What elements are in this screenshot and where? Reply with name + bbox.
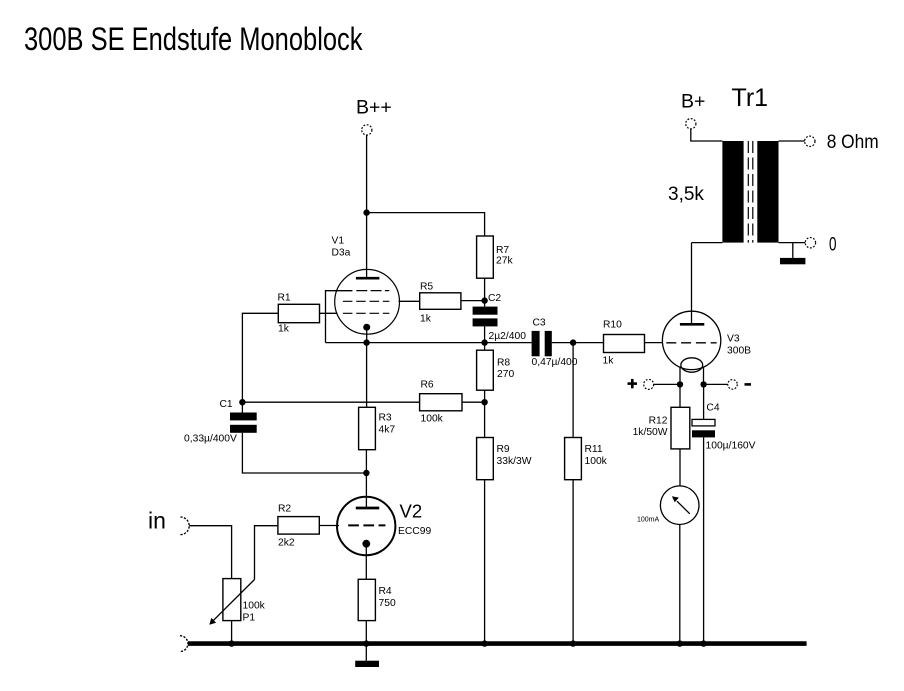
svg-text:ECC99: ECC99 — [398, 526, 431, 537]
svg-text:27k: 27k — [496, 256, 513, 267]
svg-text:100µ/160V: 100µ/160V — [706, 441, 756, 452]
node minus terminal — [728, 380, 738, 390]
node junction C2 bottom — [481, 339, 487, 345]
node junction R5/R7/C2 — [481, 297, 487, 303]
wire C2 to mid rail — [484, 326, 486, 342]
svg-text:B+: B+ — [681, 91, 705, 113]
node junction R9/rail — [481, 640, 487, 646]
svg-text:33k/3W: 33k/3W — [497, 456, 532, 467]
svg-text:300B SE Endstufe Monoblock: 300B SE Endstufe Monoblock — [24, 21, 363, 57]
V1 grid g2 — [343, 300, 389, 302]
svg-text:1k/50W: 1k/50W — [633, 427, 668, 438]
wire input to P1 top — [189, 526, 231, 579]
node junction V1 cathode — [363, 339, 369, 345]
wire V1 plate — [366, 213, 368, 277]
resistor R1 — [278, 304, 319, 322]
node junction meter/rail — [677, 640, 683, 646]
V1 grid g3 — [326, 290, 353, 292]
node junction R6/R8/R9 — [481, 399, 487, 405]
svg-text:0,33µ/400V: 0,33µ/400V — [184, 434, 237, 445]
wire R10 to V3 grid — [645, 342, 664, 344]
svg-text:750: 750 — [379, 598, 396, 609]
wire R2 to V2 grid — [319, 525, 339, 527]
meter M1 100mA — [660, 486, 699, 525]
svg-text:Tr1: Tr1 — [732, 84, 769, 112]
svg-text:2k2: 2k2 — [278, 538, 295, 549]
Tr1 secondary winding — [757, 141, 778, 243]
ground at V2 — [355, 661, 379, 667]
ground at Tr1 — [780, 258, 805, 264]
wire R7 to C2 — [484, 278, 486, 306]
svg-text:R11: R11 — [585, 444, 603, 455]
wire R3 bottom to V2 plate — [365, 450, 367, 507]
ground rail — [180, 636, 188, 652]
svg-text:100k: 100k — [421, 414, 444, 425]
Tr1 primary winding — [722, 141, 743, 243]
wire B+ to primary — [691, 129, 723, 141]
wire P1 bottom to ground rail — [231, 621, 233, 644]
wire minus terminal to filament — [704, 383, 728, 385]
node plus terminal — [628, 382, 638, 385]
svg-text:3,5k: 3,5k — [668, 184, 704, 205]
wire P1 wiper to R2 — [255, 526, 278, 580]
wire R11 top — [572, 343, 574, 438]
svg-text:100k: 100k — [243, 601, 266, 612]
wire grid bias rail y402 — [242, 401, 419, 403]
svg-text:R4: R4 — [379, 586, 392, 597]
resistor R2 — [278, 517, 319, 535]
node 8 Ohm terminal — [805, 136, 815, 146]
wire C1 top stub — [241, 402, 243, 412]
V2 grid — [348, 524, 385, 526]
V1 cathode dot — [363, 324, 370, 331]
wire secondary top to 8 Ohm — [779, 140, 805, 142]
svg-text:R7: R7 — [496, 245, 509, 256]
potentiometer P1 — [223, 579, 241, 621]
svg-text:in: in — [148, 508, 166, 534]
wire 0 ground stub — [792, 243, 794, 258]
V2 anode bar — [356, 507, 379, 510]
node junction C1/R1 — [239, 399, 245, 405]
resistor R6 — [420, 394, 462, 411]
svg-text:R3: R3 — [379, 413, 392, 424]
wire secondary bottom to 0 — [779, 242, 806, 244]
resistor R7 — [477, 236, 494, 278]
wire R8 top — [484, 343, 486, 351]
svg-text:R10: R10 — [603, 320, 622, 331]
svg-text:V1: V1 — [332, 236, 345, 247]
svg-text:1k: 1k — [603, 356, 615, 367]
svg-text:1k: 1k — [278, 324, 290, 335]
svg-text:270: 270 — [497, 369, 514, 380]
svg-text:300B: 300B — [727, 346, 751, 357]
wire V3 filament right leg — [703, 367, 705, 385]
svg-text:D3a: D3a — [332, 248, 351, 259]
V1 grid g1 — [343, 312, 389, 314]
node junction P1/rail — [228, 640, 234, 646]
resistor R5 — [420, 293, 461, 310]
wire R9 bottom to ground rail — [484, 480, 486, 644]
wire mid rail — [326, 342, 532, 344]
wire R11 bottom to ground rail — [572, 480, 574, 644]
wire V3 filament left leg — [679, 367, 681, 385]
wire R12 to meter — [679, 449, 681, 486]
V3 anode bar — [680, 323, 704, 326]
wire filament to R12 — [679, 384, 681, 407]
resistor R10 — [604, 335, 645, 353]
resistor R3 — [359, 407, 376, 449]
svg-text:R8: R8 — [497, 358, 510, 369]
wire R4 bottom to ground rail — [365, 621, 367, 644]
wire R1 left down to C1 — [242, 313, 278, 402]
node junction filament right — [700, 381, 706, 387]
node junction C3/R10/R11 — [570, 339, 576, 345]
node junction filament left — [677, 381, 683, 387]
V3 grid — [666, 342, 716, 344]
node B+ terminal — [686, 119, 696, 129]
wire C1 bottom to R3 net — [242, 433, 366, 473]
svg-text:100mA: 100mA — [637, 517, 660, 524]
svg-text:R9: R9 — [497, 444, 510, 455]
wire R5 to C2 junction — [461, 300, 485, 302]
tube V2 — [337, 497, 395, 555]
svg-text:R6: R6 — [421, 380, 434, 391]
svg-text:R12: R12 — [649, 416, 668, 427]
wire V2 cathode to R4 — [365, 544, 367, 580]
wire V3 plate — [691, 243, 693, 323]
svg-text:2µ2/400: 2µ2/400 — [489, 331, 527, 342]
wire plus terminal to filament — [654, 383, 680, 385]
svg-text:R1: R1 — [278, 293, 291, 304]
wire minus to C4 — [703, 384, 705, 419]
wire V1 g3 to cathode net — [326, 291, 353, 343]
node junction R11/rail — [570, 640, 576, 646]
node 0 terminal — [805, 238, 815, 248]
wire C4 to ground rail — [703, 437, 705, 643]
wire V1 cathode to R3 — [366, 343, 368, 408]
node junction plate/B++ — [363, 209, 369, 215]
wire V1 g2 to R5 — [399, 300, 420, 302]
node junction C1/R3/V2 — [363, 470, 369, 476]
wire R8 bottom to R9 top — [484, 390, 486, 437]
V3 filament — [681, 358, 703, 372]
Tr1 core — [747, 141, 749, 243]
svg-text:C3: C3 — [533, 318, 546, 329]
resistor R8 — [477, 350, 494, 390]
wire C3 to R10 — [552, 342, 604, 344]
wire primary bottom to V3 — [692, 242, 723, 244]
svg-text:0: 0 — [829, 234, 837, 256]
wire V2 ground stub — [365, 645, 367, 661]
svg-text:V3: V3 — [727, 334, 740, 345]
wire R6 to R8/R9 junction — [462, 401, 485, 403]
wire R1 to V1 g1 — [320, 312, 338, 314]
wire B++ drop — [366, 135, 368, 213]
svg-text:C2: C2 — [488, 293, 501, 304]
node junction C4/rail — [700, 640, 706, 646]
svg-text:C4: C4 — [706, 403, 719, 414]
tube V1 — [335, 269, 400, 334]
resistor R9 — [477, 438, 494, 480]
svg-text:100k: 100k — [585, 456, 608, 467]
svg-text:0,47µ/400: 0,47µ/400 — [532, 357, 578, 368]
svg-text:1k: 1k — [420, 314, 432, 325]
tube V3 — [662, 311, 720, 369]
svg-text:8 Ohm: 8 Ohm — [827, 131, 879, 153]
svg-text:R5: R5 — [420, 282, 433, 293]
svg-text:B++: B++ — [356, 97, 392, 119]
svg-text:4k7: 4k7 — [379, 425, 396, 436]
resistor R12 — [671, 407, 690, 449]
wire B++ rail to R7 — [367, 213, 485, 236]
svg-text:V2: V2 — [400, 501, 423, 522]
wire meter to ground rail — [679, 524, 681, 643]
svg-text:P1: P1 — [243, 613, 256, 624]
svg-text:R2: R2 — [278, 504, 291, 515]
svg-text:C1: C1 — [220, 399, 233, 410]
resistor R4 — [358, 579, 375, 620]
V1 anode bar — [356, 277, 380, 280]
node junction R4/rail — [363, 640, 369, 646]
V2 cathode dot — [362, 540, 370, 548]
wire V1 cathode — [366, 327, 368, 342]
resistor R11 — [565, 438, 582, 480]
